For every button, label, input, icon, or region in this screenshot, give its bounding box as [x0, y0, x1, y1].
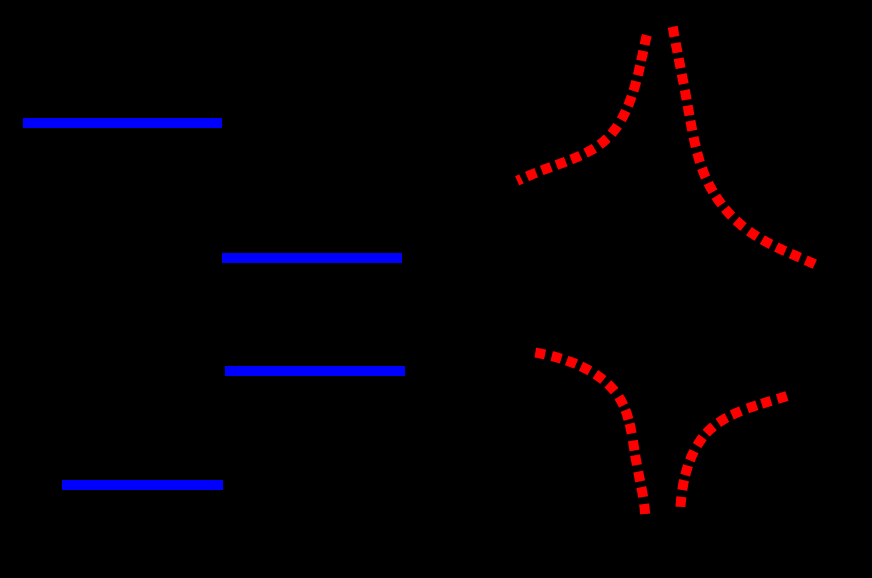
- upper resonance curve (red dashed), right branch: [673, 27, 815, 264]
- energy level 1 (blue bar, upper left): [23, 118, 222, 128]
- upper resonance curve (red dashed), left branch: [517, 35, 647, 181]
- energy level 4 (blue bar, bottom left): [62, 480, 223, 490]
- energy level 3 (blue bar, lower middle): [225, 366, 405, 376]
- lower resonance curve (red dashed), right branch: [681, 396, 787, 507]
- lower resonance curve (red dashed), left branch: [535, 353, 645, 514]
- energy level 2 (blue bar, middle): [222, 253, 402, 263]
